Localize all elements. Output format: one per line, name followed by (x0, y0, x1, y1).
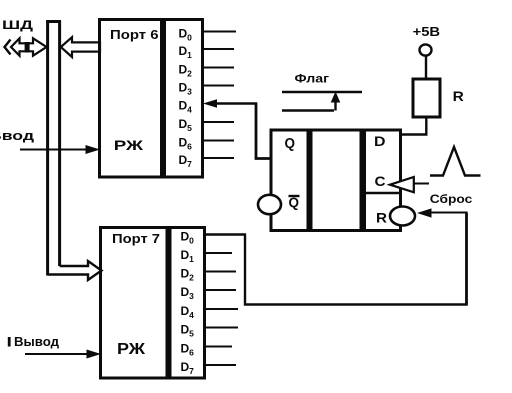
flag signal upper line (282, 91, 362, 93)
wire stub D6 Порт 7 (205, 346, 232, 348)
register Порт 6 box (100, 20, 203, 178)
label Порт 7 (112, 231, 160, 246)
block arrow bus to Порт 7 (48, 261, 102, 280)
wire stub D4 Порт 7 (205, 308, 238, 310)
svg-text:Порт 7: Порт 7 (112, 231, 160, 246)
label РЖ (Порт 7) (117, 341, 146, 358)
svg-text:Порт 6: Порт 6 (110, 27, 159, 42)
wire stub D1 Порт 7 (205, 252, 232, 254)
svg-text:R: R (376, 210, 387, 226)
R inversion bubble (390, 207, 415, 226)
label R input (376, 210, 387, 226)
Порт 6 divider bar (160, 20, 166, 177)
svg-text:Сброс: Сброс (430, 192, 473, 206)
flip-flop divider bar right (360, 131, 367, 231)
bidirectional block arrow ШД to bus (11, 38, 47, 55)
wire stub D0 Порт 6 (203, 31, 236, 33)
wire stub D7 Порт 6 (203, 157, 234, 159)
pin labels D0-D7 of Порт 6 (179, 27, 193, 170)
label Флаг (295, 72, 330, 86)
svg-text:Ввод: Ввод (0, 129, 34, 143)
svg-text:Q: Q (285, 136, 296, 152)
flip-flop U1 box (271, 130, 401, 231)
wire stub D3 Порт 6 (203, 85, 234, 87)
clock pulse waveform symbol (430, 147, 481, 176)
svg-text:+5В: +5В (413, 25, 441, 39)
svg-text:Флаг: Флаг (295, 72, 330, 86)
wire Ввод arrow into Порт 6 (20, 145, 100, 154)
wire stub D1 Порт 6 (203, 48, 234, 50)
wire stub D5 Порт 6 (203, 121, 234, 123)
wire stub D3 Порт 7 (205, 289, 236, 291)
svg-text:R: R (453, 88, 464, 104)
label D input (374, 133, 386, 149)
Порт 7 divider bar (166, 228, 172, 378)
resistor R (413, 79, 440, 117)
wire Q output to D4 Порт 6 with arrow (203, 99, 271, 159)
wire D0 Порт 7 to Сброс loop (205, 208, 468, 305)
wire stub D2 Порт 6 (203, 67, 234, 69)
wire stub D6 Порт 6 (203, 140, 234, 142)
label Вывод (8, 335, 59, 349)
label Q-bar output (289, 194, 300, 210)
pin labels D0-D7 of Порт 7 (181, 230, 195, 377)
flip-flop divider bar left (307, 131, 313, 231)
label Сброс (430, 192, 473, 206)
+5V terminal circle (420, 44, 432, 55)
flag signal lower line with rising arrow (282, 92, 340, 111)
wire stub D5 Порт 7 (205, 327, 238, 329)
Q-bar inversion bubble (258, 195, 281, 214)
register Порт 7 box (101, 228, 205, 379)
wire resistor to +5V terminal (425, 56, 427, 79)
label РЖ (Порт 6) (114, 137, 144, 153)
chevron at left edge (5, 40, 11, 55)
svg-text:C: C (375, 173, 386, 189)
label Порт 6 (110, 27, 159, 42)
label Ввод (0, 129, 34, 143)
wire stub D2 Порт 7 (205, 271, 236, 273)
wire stub D7 Порт 7 (205, 364, 236, 366)
svg-text:РЖ: РЖ (117, 341, 146, 358)
label ШД (data bus name) (2, 18, 34, 32)
block arrow Порт 6 to bus (61, 37, 100, 57)
clock input triangle (390, 177, 429, 192)
bus ШД vertical hollow bar (46, 21, 61, 276)
label Q output (285, 136, 296, 152)
svg-text:ШД: ШД (2, 18, 34, 32)
label C input (375, 173, 386, 189)
flip-flop C/R section divider (366, 192, 399, 195)
svg-text:D: D (374, 133, 386, 149)
wire Вывод arrow into Порт 7 (25, 350, 101, 359)
label R (resistor) (453, 88, 464, 104)
wire flip-flop D to resistor (400, 116, 428, 136)
label +5В (413, 25, 441, 39)
svg-text:РЖ: РЖ (114, 137, 144, 153)
svg-text:Вывод: Вывод (14, 335, 59, 349)
